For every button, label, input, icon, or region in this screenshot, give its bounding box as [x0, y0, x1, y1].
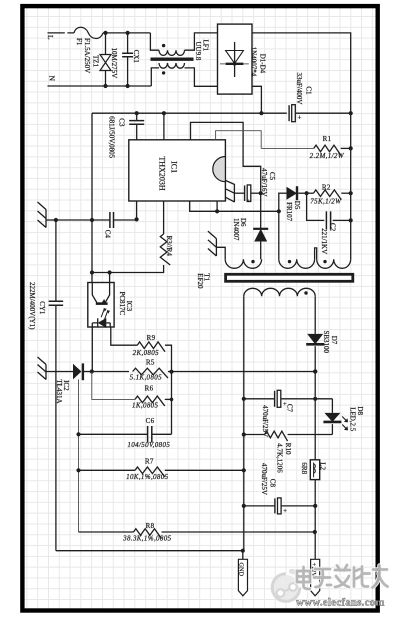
svg-text:10K,1%,0805: 10K,1%,0805 — [126, 473, 168, 481]
svg-text:LED,2.5: LED,2.5 — [348, 407, 356, 432]
svg-text:D5: D5 — [293, 201, 301, 210]
svg-text:R8: R8 — [146, 522, 155, 530]
wire secondary GND leg — [243, 296, 245, 550]
wire IC1 pin stub — [216, 201, 218, 211]
svg-text:1N4007*4: 1N4007*4 — [250, 47, 258, 77]
wire R6 left jog — [92, 372, 135, 400]
wire IC1 pin to wire A — [190, 201, 217, 211]
wire IC1 pin to C4 — [136, 201, 138, 219]
svg-text:R1: R1 — [323, 135, 332, 143]
wire primary left riser — [278, 211, 280, 259]
svg-text:C2: C2 — [329, 223, 337, 232]
shunt reference IC2 TL431A — [73, 364, 81, 380]
wire D6 anode to aux winding — [260, 242, 262, 260]
junction D5 cathode / R2 left — [305, 191, 309, 195]
resistor R1 — [261, 147, 314, 149]
svg-text:C4: C4 — [103, 230, 111, 239]
wire ref to R8 — [79, 531, 134, 533]
svg-text:1N4007: 1N4007 — [232, 218, 240, 241]
junction CX1 top — [126, 31, 130, 35]
svg-text:L2: L2 — [318, 462, 326, 470]
svg-text:D1-D4: D1-D4 — [258, 54, 266, 74]
junction C6 left on ref line — [76, 432, 80, 436]
svg-text:TL431A: TL431A — [55, 379, 63, 403]
wire into LF1 bottom winding — [151, 68, 159, 86]
diode D7 SB3100 — [307, 334, 323, 344]
wire IC1 Vcc pin path — [191, 122, 261, 193]
wire R2 left to C2 — [307, 193, 325, 220]
inductor LF1 bottom winding — [159, 63, 185, 68]
resistor R6 — [135, 396, 165, 406]
svg-text:F1: F1 — [75, 38, 83, 46]
svg-text:104/50V,0805: 104/50V,0805 — [127, 441, 170, 449]
svg-text:C6: C6 — [146, 417, 155, 425]
junction R7 left on ref line — [76, 468, 80, 472]
svg-text:R10: R10 — [284, 443, 292, 455]
core LF1 — [151, 58, 194, 61]
wire R6 right — [165, 398, 172, 400]
polarity dot primary B — [323, 260, 326, 263]
wire IC3 transistor emitter pin — [109, 273, 111, 283]
junction wire A left — [215, 209, 219, 213]
wire primary ground rail — [92, 112, 287, 114]
wire R5 right — [168, 371, 244, 373]
transformer T1 primary winding B — [317, 259, 351, 268]
polarity dot LF1 top — [162, 44, 165, 47]
svg-text:221/1KV: 221/1KV — [320, 228, 328, 254]
wire rail to IC1 pin — [163, 113, 165, 140]
svg-text:C3: C3 — [118, 118, 126, 127]
svg-text:N: N — [48, 76, 57, 82]
polarity dot secondary — [304, 291, 307, 294]
svg-text:1K,0805: 1K,0805 — [132, 402, 159, 410]
wire IC3 LED anode pin — [111, 327, 138, 345]
polarity dot primary A — [288, 260, 291, 263]
svg-text:C7: C7 — [285, 404, 293, 413]
svg-text:C8: C8 — [269, 479, 277, 488]
watermark hanzi 电子发烧友 — [297, 565, 388, 589]
wire bar to C5 — [234, 192, 244, 194]
junction wire A right — [277, 209, 281, 213]
junction C3 top — [135, 111, 139, 115]
junction R6 right — [170, 398, 174, 402]
svg-text:2K,0805: 2K,0805 — [133, 349, 160, 357]
svg-text:681J/50V,0805: 681J/50V,0805 — [107, 116, 115, 159]
svg-text:F1.5A/250V: F1.5A/250V — [83, 38, 91, 73]
svg-text:75K,1/2W: 75K,1/2W — [310, 198, 342, 206]
junction C8 right — [313, 504, 317, 508]
wire primary series link — [315, 248, 317, 259]
wire IC3 LED cathode pin — [91, 327, 93, 372]
svg-text:D7: D7 — [330, 336, 338, 345]
wire R3 bottom — [92, 265, 164, 273]
varistor TZ1 — [105, 33, 107, 54]
svg-text:CY1: CY1 — [38, 301, 46, 315]
inductor LF1 top winding — [159, 50, 185, 55]
wire A to primary winding — [217, 210, 279, 212]
resistor R10 — [244, 434, 265, 436]
IC IC1 THX203H — [129, 140, 226, 201]
ground chassis C4 — [38, 202, 47, 228]
bridge rectifier D1-D4 — [218, 24, 253, 94]
junction HV rail top — [349, 111, 353, 115]
svg-text:R7: R7 — [145, 458, 154, 466]
svg-text:R2: R2 — [322, 183, 331, 191]
junction CX1 bottom — [126, 84, 130, 88]
wire ground to aux winding — [216, 247, 225, 259]
polarity dot LF1 bottom — [162, 71, 165, 74]
svg-text:+: + — [283, 508, 287, 515]
capacitor CY1 — [55, 220, 57, 301]
watermark logo — [272, 574, 300, 602]
junction Vcc node — [259, 191, 263, 195]
junction TL431 cathode node — [90, 369, 94, 373]
junction R5/R9 node — [169, 370, 173, 374]
wire IC1 pin to R3 — [163, 201, 165, 234]
junction R1 right — [349, 146, 353, 150]
junction R3 bottom wire — [90, 270, 94, 274]
wire C6 left — [79, 433, 148, 435]
svg-text:4.7K,1206: 4.7K,1206 — [275, 443, 283, 473]
wire HV rail (right vertical) — [350, 113, 352, 259]
wire L input — [48, 32, 75, 34]
optocoupler IC3 PC817C — [88, 283, 114, 328]
svg-text:C1: C1 — [304, 86, 312, 95]
junction R8 right on +12V leg — [313, 530, 317, 534]
wire into LF1 top winding — [150, 33, 159, 50]
junction R10 left — [242, 432, 246, 436]
wire C1 to HV rail — [296, 112, 351, 114]
junction R2 right — [349, 191, 353, 195]
junction C7 right — [313, 397, 317, 401]
wire ground to C4 node — [46, 219, 56, 221]
resistor R5 — [133, 368, 168, 378]
junction IC3 pin on R3 wire — [108, 270, 112, 274]
wire bridge - return — [252, 86, 261, 113]
wire C5 to Vcc node — [251, 192, 261, 194]
junction C4 right IC pin — [135, 217, 139, 221]
junction D7 out / feedback — [313, 369, 317, 373]
junction C2 right — [349, 218, 353, 222]
wire node to C6 — [171, 372, 173, 435]
capacitor C2 — [326, 211, 330, 229]
svg-text:IC1: IC1 — [169, 161, 178, 173]
capacitor C4 — [110, 212, 114, 228]
junction TZ1 bottom — [103, 84, 107, 88]
junction bridge return — [259, 111, 263, 115]
svg-text:222M/400V(Y1): 222M/400V(Y1) — [28, 282, 36, 330]
junction TZ1 top — [103, 31, 107, 35]
terminal GND — [238, 559, 247, 596]
svg-text:+: + — [298, 114, 302, 122]
transformer T1 aux winding — [225, 259, 261, 268]
capacitor C6 — [148, 426, 152, 443]
capacitor C7 — [244, 398, 275, 400]
transformer T1 core — [226, 274, 353, 281]
transformer T1 primary winding A — [279, 259, 315, 268]
diode D5 FR107 — [279, 192, 287, 194]
svg-text:www.elecfans.com: www.elecfans.com — [296, 597, 385, 609]
svg-text:GND: GND — [238, 563, 245, 577]
svg-text:FR107: FR107 — [285, 202, 293, 222]
capacitor C5 — [244, 185, 246, 201]
transformer T1 secondary winding — [244, 288, 315, 296]
capacitor C3 — [136, 113, 138, 120]
wire D5 anode drop — [278, 193, 280, 211]
junction IC1 supply pin — [162, 111, 166, 115]
svg-text:PC817C: PC817C — [118, 292, 126, 316]
svg-text:R9: R9 — [147, 334, 156, 342]
resistor R9 — [137, 342, 165, 352]
wire D7 cathode — [314, 346, 316, 460]
junction C4 left — [90, 218, 94, 222]
svg-text:R6: R6 — [145, 385, 154, 393]
svg-text:6R8: 6R8 — [300, 462, 308, 474]
wire D8 cathode to R10 — [331, 424, 333, 434]
wire Vcc node down to D6 — [260, 193, 262, 229]
svg-text:38.3K,1%,0805: 38.3K,1%,0805 — [122, 534, 171, 542]
svg-text:10M/275V: 10M/275V — [110, 48, 118, 79]
wire fuse to TZ1/CX1 top — [103, 32, 150, 34]
svg-text:+: + — [246, 198, 250, 205]
svg-text:UU9.8: UU9.8 — [194, 42, 202, 61]
wire TL431 cathode — [84, 371, 92, 373]
polarity dot aux — [251, 260, 254, 263]
wire N input — [48, 85, 152, 87]
wire bridge + output — [252, 33, 351, 113]
svg-text:THX203H: THX203H — [158, 156, 167, 190]
svg-text:L: L — [46, 35, 55, 40]
wire feedback to secondary — [244, 371, 315, 373]
svg-text:R5: R5 — [146, 359, 155, 367]
capacitor C8 — [244, 505, 275, 507]
wire L2 to +12V terminal — [314, 480, 316, 560]
wire LF1 bottom to bridge — [185, 68, 218, 86]
svg-text:33uF/400V: 33uF/400V — [295, 73, 303, 105]
wire IC1 startup pin path — [216, 131, 262, 149]
wire left vertical net — [91, 113, 93, 282]
IC1 pin fan to common bar — [225, 180, 234, 202]
svg-text:C5: C5 — [268, 172, 276, 181]
junction CY1 top — [54, 218, 58, 222]
inductor L2 — [310, 460, 319, 480]
svg-text:SB3100: SB3100 — [322, 331, 330, 354]
wire C4 node — [56, 219, 110, 221]
fuse F1 — [74, 27, 103, 38]
resistor R3//R4 — [160, 234, 170, 265]
junction GND terminal — [241, 549, 245, 553]
wire to GND terminal — [242, 551, 244, 560]
svg-text:EF20: EF20 — [196, 273, 204, 289]
wire secondary out — [314, 296, 316, 334]
svg-text:CX1: CX1 — [132, 50, 140, 64]
resistor R2 — [307, 192, 314, 194]
capacitor CX1 — [127, 33, 129, 53]
svg-text:2.2M,1/2W: 2.2M,1/2W — [310, 152, 345, 160]
svg-text:R3//R4: R3//R4 — [165, 236, 173, 257]
ground chassis T1 — [208, 231, 217, 256]
wire TL431 ref — [78, 379, 80, 532]
junction C8 left — [242, 504, 246, 508]
wire LF1 top to bridge — [185, 33, 218, 50]
svg-text:TZ1: TZ1 — [92, 55, 100, 68]
wire feedback to R5 — [92, 371, 129, 373]
terminal +12V — [311, 559, 320, 596]
junction R7 right on GND leg — [242, 468, 246, 472]
wire ground to TL431 anode — [46, 371, 73, 373]
wire bottom ground rail — [56, 550, 243, 552]
capacitor C1 — [288, 105, 290, 121]
ground chassis TL431 — [38, 357, 47, 380]
resistor R8 — [134, 529, 162, 539]
svg-text:5.1K,0805: 5.1K,0805 — [130, 373, 162, 381]
junction feedback at D7 output — [313, 369, 317, 373]
resistor R7 — [79, 469, 136, 471]
svg-text:470uF/25V: 470uF/25V — [260, 463, 268, 495]
junction C7 left — [242, 397, 246, 401]
LED D8 — [331, 399, 333, 413]
diode D6 1N4007 — [254, 229, 267, 242]
